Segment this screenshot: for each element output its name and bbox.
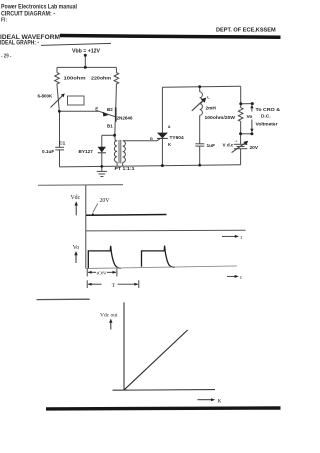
svg-text:20V: 20V <box>250 145 259 151</box>
svg-text:BY127: BY127 <box>79 149 94 154</box>
svg-text:220ohm: 220ohm <box>91 76 111 81</box>
svg-text:C1: C1 <box>59 141 65 146</box>
svg-text:V d.c: V d.c <box>223 143 234 148</box>
svg-text:B2: B2 <box>107 107 113 112</box>
svg-text:K: K <box>168 142 171 147</box>
svg-text:DEPT. OF ECE,KSSEM: DEPT. OF ECE,KSSEM <box>216 28 276 34</box>
svg-text:D.C.: D.C. <box>261 114 271 120</box>
svg-text:Vo: Vo <box>247 114 253 120</box>
svg-text:a: a <box>168 124 171 129</box>
svg-text:Vdc: Vdc <box>71 195 81 201</box>
svg-text:Voltmeter: Voltmeter <box>256 122 278 128</box>
svg-text:E: E <box>95 106 98 111</box>
svg-text:t: t <box>241 235 243 241</box>
svg-text:t: t <box>240 275 242 281</box>
svg-text:2mH: 2mH <box>206 106 217 112</box>
svg-text:Vo: Vo <box>73 245 79 251</box>
svg-text:Vbb = +12V: Vbb = +12V <box>72 49 101 55</box>
svg-text:PT 1:1:1: PT 1:1:1 <box>115 166 135 171</box>
svg-text:Vdc out: Vdc out <box>100 313 118 319</box>
svg-text:FI:: FI: <box>1 18 7 24</box>
svg-text:1uF: 1uF <box>207 143 216 149</box>
svg-text:B1: B1 <box>107 123 113 128</box>
svg-text:T: T <box>112 283 116 289</box>
svg-text:6-800K: 6-800K <box>38 94 54 99</box>
svg-text:G: G <box>150 136 153 141</box>
svg-text:K: K <box>218 398 222 404</box>
svg-text:tON: tON <box>97 271 107 276</box>
svg-text:20V: 20V <box>100 198 111 204</box>
svg-text:TY604: TY604 <box>170 135 184 141</box>
svg-text:CIRCUIT DIAGRAM: -: CIRCUIT DIAGRAM: - <box>1 11 55 18</box>
svg-text:To CRO &: To CRO & <box>256 107 281 113</box>
svg-text:2N2646: 2N2646 <box>117 116 133 121</box>
svg-text:+: + <box>235 138 238 143</box>
svg-text:IDEAL GRAPH: -: IDEAL GRAPH: - <box>0 40 39 47</box>
svg-text:Power Electronics Lab manual: Power Electronics Lab manual <box>1 4 77 11</box>
svg-text:L: L <box>207 95 210 100</box>
svg-text:- 29 -: - 29 - <box>1 54 12 60</box>
svg-text:100ohm/20W: 100ohm/20W <box>205 115 236 121</box>
svg-text:0.1uF: 0.1uF <box>42 149 54 154</box>
svg-text:100ohm: 100ohm <box>64 76 86 81</box>
